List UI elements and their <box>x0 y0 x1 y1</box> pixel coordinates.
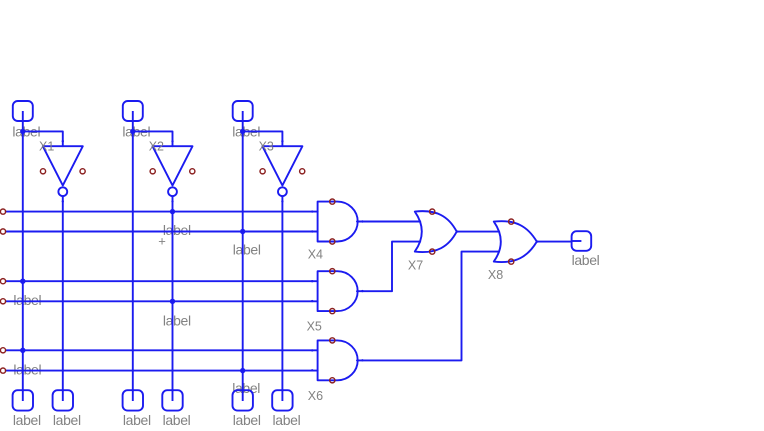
wire (column NOTC) <box>281 196 283 391</box>
wire (row 4) <box>6 300 318 302</box>
probe box P6 <box>272 390 292 410</box>
pin node (X7 output) <box>456 230 458 232</box>
wire (column NOTA) <box>62 196 64 391</box>
svg-text:label: label <box>123 412 151 428</box>
node junction (C-row6) <box>240 368 245 373</box>
inverter X1 <box>43 146 83 196</box>
node junction (C-row2) <box>240 229 245 234</box>
node junction (NOTB-row1) <box>170 209 175 214</box>
open node (row 4 left) <box>0 299 5 304</box>
input box IN2 <box>123 101 143 122</box>
wire (X4 out to X7) <box>357 221 420 223</box>
pin (X4 top) <box>330 199 335 204</box>
inverter X3 <box>262 146 302 196</box>
pin (X1 right) <box>80 169 85 174</box>
and-gate X5 <box>318 271 358 311</box>
input box IN1 <box>13 101 33 122</box>
pin node (X1 output) <box>62 200 64 202</box>
pin node (X6 input 2) <box>311 369 313 371</box>
svg-text:X8: X8 <box>488 268 503 282</box>
pin (X7 bottom) <box>430 249 435 254</box>
svg-text:label: label <box>53 412 81 428</box>
pin (X8 bottom) <box>509 259 514 264</box>
svg-text:label: label <box>273 412 301 428</box>
probe box P1 <box>13 390 33 410</box>
wire (X6 out to X8) <box>357 252 499 361</box>
open node (row 1 left) <box>0 209 5 214</box>
inverter X2 <box>153 146 193 196</box>
svg-text:label: label <box>163 222 191 238</box>
svg-text:+: + <box>158 234 166 249</box>
svg-text:X3: X3 <box>259 139 274 153</box>
and-gate X6 <box>318 340 358 380</box>
pin (X1 left) <box>40 169 45 174</box>
pin (X8 top) <box>509 219 514 224</box>
pin node (X6 input 1) <box>311 349 313 351</box>
pin node (X2 output) <box>171 200 173 202</box>
open node (row 6 left) <box>0 368 5 373</box>
pin node (X3 output) <box>281 200 283 202</box>
wire (X8 out to output) <box>537 241 572 243</box>
svg-text:X7: X7 <box>408 258 423 272</box>
pin node (X4 input 1) <box>311 210 313 212</box>
pin (X3 left) <box>260 169 265 174</box>
output box OUT <box>572 231 592 251</box>
pin node (X5 input 1) <box>311 280 313 282</box>
open node (row 3 left) <box>0 279 5 284</box>
probe box P3 <box>123 390 143 410</box>
open node (row 5 left) <box>0 348 5 353</box>
wire (X7 out to X8) <box>457 231 499 233</box>
pin node (X4 output) <box>361 220 363 222</box>
wire (branch to X3) <box>243 131 283 146</box>
svg-text:X5: X5 <box>307 320 322 334</box>
svg-text:label: label <box>13 412 41 428</box>
svg-text:label: label <box>572 252 600 268</box>
node junction (B branch) <box>130 129 135 134</box>
wire (column C) <box>242 121 244 391</box>
pin (X7 top) <box>430 209 435 214</box>
pin node (X1 input) <box>62 140 64 142</box>
wire (column A) <box>22 121 24 391</box>
pin (X2 left) <box>150 169 155 174</box>
svg-text:X6: X6 <box>308 389 323 403</box>
svg-text:X2: X2 <box>149 139 164 153</box>
wire (branch to X1) <box>23 131 63 146</box>
node junction (NOTB-row4) <box>170 299 175 304</box>
wire (row 3) <box>6 280 318 282</box>
svg-text:label: label <box>13 292 41 308</box>
wire (column NOTB) <box>172 196 174 391</box>
node junction (A-row5) <box>20 348 25 353</box>
input box IN3 <box>233 101 253 122</box>
pin (X5 bottom) <box>330 309 335 314</box>
pin (X3 right) <box>300 169 305 174</box>
wire (row 1) <box>6 211 318 213</box>
pin (X4 bottom) <box>330 239 335 244</box>
pin node (X5 input 2) <box>311 300 313 302</box>
node junction (A branch) <box>20 129 25 134</box>
pin node (X3 input) <box>281 140 283 142</box>
svg-text:label: label <box>232 380 260 396</box>
svg-text:label: label <box>233 242 261 258</box>
or-gate X7 <box>415 211 457 252</box>
and-gate X4 <box>318 202 358 242</box>
probe box P4 <box>162 390 182 410</box>
pin (X6 bottom) <box>330 378 335 383</box>
svg-text:label: label <box>13 361 41 377</box>
svg-text:label: label <box>163 412 191 428</box>
svg-text:label: label <box>233 412 261 428</box>
node junction (A-row3) <box>20 279 25 284</box>
probe box P2 <box>53 390 73 410</box>
wire (row 5) <box>6 349 318 351</box>
svg-text:X4: X4 <box>308 247 323 261</box>
pin node (X8 output) <box>536 240 538 242</box>
pin (X2 right) <box>190 169 195 174</box>
probe box P5 <box>233 390 253 410</box>
pin node (X4 input 2) <box>311 230 313 232</box>
or-gate X8 <box>494 221 537 262</box>
open node (row 2 left) <box>0 229 5 234</box>
pin (X5 top) <box>330 269 335 274</box>
wire (branch to X2) <box>133 131 173 146</box>
wire (X5 out to X7) <box>357 242 420 292</box>
pin node (X5 output) <box>361 290 363 292</box>
pin (X6 top) <box>330 338 335 343</box>
svg-text:X1: X1 <box>39 139 54 153</box>
wire (column B) <box>132 121 134 391</box>
wire (row 6) <box>6 370 318 372</box>
svg-text:label: label <box>163 313 191 329</box>
pin node (X2 input) <box>171 140 173 142</box>
wire (row 2) <box>6 231 318 233</box>
pin node (X6 output) <box>361 359 363 361</box>
node junction (C branch) <box>240 129 245 134</box>
